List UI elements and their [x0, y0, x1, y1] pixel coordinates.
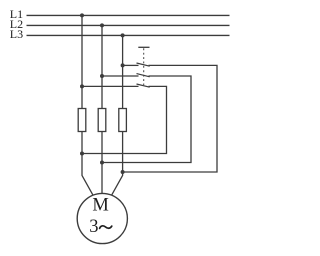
node phase2 branch — [100, 74, 104, 78]
resistor R1 — [78, 109, 86, 132]
node L1 tap — [80, 13, 84, 17]
resistor R2 — [98, 109, 106, 132]
resistor R3 — [119, 109, 127, 132]
contact K1.1 blade — [137, 63, 150, 66]
wire K1.1 output loop (right and down, outer) — [123, 65, 217, 172]
node L3 tap — [121, 33, 125, 37]
wire phase3 vertical lower (R3 to motor lead) — [112, 132, 123, 196]
svg-text:M: M — [92, 196, 108, 216]
wire L3 bus — [27, 34, 230, 36]
node L2 tap — [100, 23, 104, 27]
contact K1.2 blade — [137, 74, 150, 77]
svg-text:L3: L3 — [10, 27, 23, 41]
wire phase1 vertical upper (L1 tap to resistor R1) — [81, 15, 83, 108]
motor M1 label tilde — [100, 226, 112, 229]
contactor K1 actuator linkage (dashed) — [143, 48, 145, 85]
contact K1.3 blade — [137, 84, 150, 87]
wire K1.2 output loop (right and down, middle) — [102, 76, 191, 163]
motor M1 body — [77, 193, 127, 243]
wire branch phase3 to contact K1.1 — [123, 64, 139, 66]
node phase3 bypass join — [121, 170, 125, 174]
node phase2 bypass join — [100, 161, 104, 165]
wire phase2 vertical upper (L2 tap to resistor R2) — [101, 25, 103, 108]
contactor K1 actuator bar — [138, 46, 149, 48]
node phase1 bypass join — [80, 152, 84, 156]
wire branch phase1 to contact K1.3 — [82, 85, 139, 87]
svg-text:3: 3 — [89, 217, 98, 237]
wire L1 bus — [27, 14, 230, 16]
wire branch phase2 to contact K1.2 — [102, 75, 139, 77]
wire phase3 vertical upper (L3 tap to resistor R3) — [122, 35, 124, 108]
wire K1.3 output loop (right and down, inner) — [82, 86, 167, 153]
wire phase2 vertical lower (R2 to motor) — [101, 132, 103, 194]
wire L2 bus — [27, 24, 230, 26]
wire phase1 vertical lower (R1 to motor lead) — [82, 132, 93, 196]
node phase1 branch — [80, 84, 84, 88]
node phase3 branch — [121, 63, 125, 67]
